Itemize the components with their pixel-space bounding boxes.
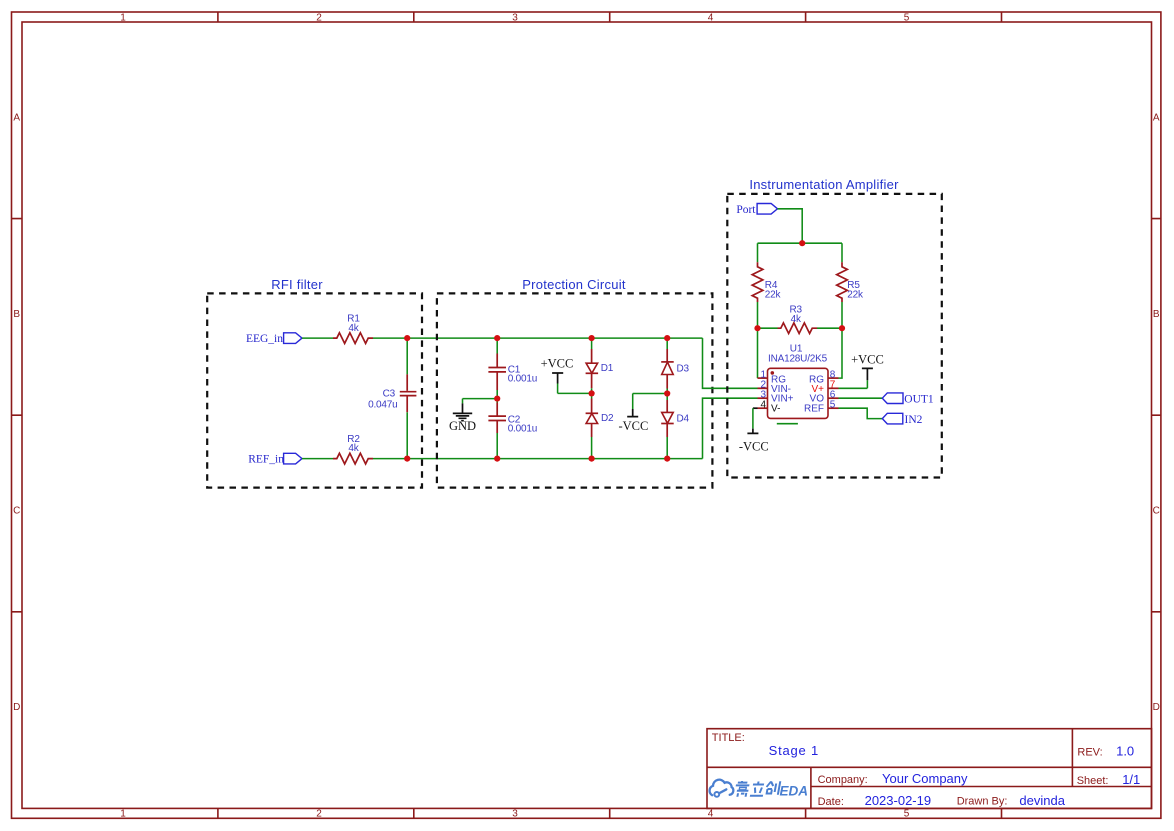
svg-text:1/1: 1/1: [1122, 772, 1140, 787]
wire: [758, 328, 843, 378]
wire to VIN+: [703, 398, 758, 458]
logo cloud icon: [710, 780, 734, 797]
svg-text:B: B: [1153, 309, 1160, 320]
wire: [591, 388, 593, 398]
wire: [406, 412, 408, 458]
wire: [496, 399, 498, 403]
node C1 top junction: [494, 335, 500, 341]
wire: [839, 397, 883, 399]
svg-text:5: 5: [904, 809, 910, 820]
svg-text:0.001u: 0.001u: [508, 374, 537, 385]
port IN2: [882, 413, 903, 424]
wire: [496, 338, 498, 353]
svg-text:Company:: Company:: [818, 774, 868, 786]
svg-text:1.0: 1.0: [1116, 743, 1134, 758]
right ruler ticks: [1152, 219, 1161, 612]
svg-text:C3: C3: [383, 389, 396, 400]
node EEG junction: [404, 335, 410, 341]
pin 7: [828, 387, 839, 389]
resistor R3: [778, 323, 818, 334]
svg-text:devinda: devinda: [1019, 793, 1065, 808]
svg-text:4: 4: [760, 400, 766, 411]
capacitor C1: [488, 354, 506, 391]
svg-text:Port: Port: [736, 204, 756, 216]
svg-text:2023-02-19: 2023-02-19: [865, 793, 932, 808]
svg-text:D2: D2: [601, 413, 614, 424]
node C2 bottom junction: [494, 456, 500, 462]
resistor R5: [837, 262, 848, 302]
svg-text:A: A: [13, 113, 20, 124]
svg-text:D: D: [13, 702, 20, 713]
svg-text:+VCC: +VCC: [541, 357, 574, 371]
node D1 top junction: [589, 335, 595, 341]
svg-text:C: C: [1153, 506, 1160, 517]
svg-text:Date:: Date:: [818, 796, 844, 808]
pin 8: [828, 377, 839, 379]
ground GND: [453, 403, 472, 420]
wire: [666, 338, 668, 349]
wire: [666, 389, 668, 401]
svg-text:0.001u: 0.001u: [508, 423, 537, 434]
pin 3: [758, 397, 768, 399]
wire: [558, 384, 592, 394]
wire: [496, 433, 498, 459]
svg-text:2: 2: [316, 809, 322, 820]
svg-text:EEG_in: EEG_in: [246, 333, 283, 345]
wire: [839, 408, 883, 418]
svg-text:-VCC: -VCC: [618, 419, 648, 433]
svg-text:Instrumentation Amplifier: Instrumentation Amplifier: [749, 177, 899, 192]
node RG top junction: [799, 240, 805, 246]
resistor R4: [752, 262, 763, 302]
node REF junction: [404, 456, 410, 462]
top column numbers: [120, 13, 910, 24]
AMPLIFIER: [727, 177, 942, 478]
node D3-D4 junction: [664, 390, 670, 396]
wire: [463, 399, 498, 404]
diode D3: [666, 349, 668, 389]
wire: [373, 337, 703, 339]
RFI filter box: [207, 293, 422, 487]
svg-text:1: 1: [120, 809, 126, 820]
Instrumentation Amplifier box: [727, 194, 942, 478]
pin 6: [828, 397, 839, 399]
diode D1: [591, 349, 593, 388]
wire: [591, 338, 593, 349]
wire: [496, 390, 498, 399]
wire: [758, 302, 843, 328]
svg-text:D: D: [1153, 702, 1160, 713]
Protection Circuit box: [437, 293, 713, 487]
svg-text:0.047u: 0.047u: [368, 400, 397, 411]
svg-text:+VCC: +VCC: [851, 352, 884, 366]
svg-text:V-: V-: [771, 403, 780, 414]
PROTECTION: [437, 277, 758, 488]
svg-text:IN2: IN2: [905, 414, 923, 426]
TITLEBLOCK: [707, 729, 1152, 809]
resistor R1: [333, 333, 373, 344]
junction dots layer: [404, 240, 845, 462]
svg-text:4k: 4k: [791, 314, 802, 325]
svg-text:B: B: [13, 309, 20, 320]
pin 4: [758, 407, 768, 409]
svg-text:A: A: [1153, 113, 1160, 124]
wire stub under U1: [777, 423, 798, 425]
svg-text:Sheet:: Sheet:: [1077, 775, 1109, 787]
svg-text:3: 3: [512, 809, 518, 820]
logo text: [734, 781, 781, 797]
svg-text:4k: 4k: [348, 323, 359, 334]
svg-text:4k: 4k: [348, 443, 359, 454]
svg-text:1: 1: [120, 13, 126, 24]
diode D4: [666, 400, 668, 437]
port EEG_in: [284, 333, 302, 344]
svg-text:REF_in: REF_in: [248, 454, 284, 466]
wire: [591, 437, 593, 459]
svg-text:Stage 1: Stage 1: [769, 743, 819, 758]
wire to VIN-: [703, 338, 758, 388]
svg-text:4: 4: [708, 13, 714, 24]
op-amp U1: [768, 368, 829, 418]
diode D2: [591, 399, 593, 438]
port REF_in: [284, 453, 302, 464]
node D2 bottom junction: [589, 456, 595, 462]
svg-text:22k: 22k: [765, 290, 782, 301]
pin 5: [828, 407, 839, 409]
svg-text:TITLE:: TITLE:: [712, 732, 745, 744]
svg-text:3: 3: [512, 13, 518, 24]
svg-text:Protection Circuit: Protection Circuit: [522, 277, 626, 292]
node D3 top junction: [664, 335, 670, 341]
node C1-C2 junction: [494, 396, 500, 402]
pin 2: [758, 387, 768, 389]
resistor R2: [333, 453, 373, 464]
svg-text:GND: GND: [449, 419, 476, 433]
svg-text:Drawn By:: Drawn By:: [957, 796, 1008, 808]
wire: [758, 243, 843, 262]
port Port: [757, 204, 777, 215]
svg-text:RFI filter: RFI filter: [271, 277, 323, 292]
wire: [778, 209, 803, 243]
svg-text:EDA: EDA: [780, 783, 809, 798]
svg-text:D4: D4: [677, 414, 690, 425]
capacitor C2: [488, 403, 506, 434]
bottom ruler ticks: [218, 808, 1002, 818]
net -VCC flag at V-: [753, 407, 758, 409]
svg-text:OUT1: OUT1: [904, 393, 934, 405]
svg-text:INA128U/2K5: INA128U/2K5: [768, 354, 828, 365]
node RG right junction: [839, 325, 845, 331]
wire: [666, 437, 668, 459]
wire: [302, 337, 333, 339]
svg-text:4: 4: [708, 809, 714, 820]
node D4 bottom junction: [664, 456, 670, 462]
left row letters: [13, 113, 20, 714]
left ruler ticks: [12, 219, 23, 612]
svg-text:REF: REF: [804, 403, 824, 414]
svg-text:22k: 22k: [847, 290, 864, 301]
pin 1: [758, 377, 768, 379]
svg-text:2: 2: [316, 13, 322, 24]
net -VCC flag: [633, 394, 668, 410]
top ruler ticks: [218, 12, 1002, 22]
title block outline: [707, 729, 1152, 809]
svg-text:5: 5: [830, 400, 836, 411]
svg-text:C: C: [13, 506, 20, 517]
svg-text:Your Company: Your Company: [882, 771, 968, 786]
wire: [302, 458, 333, 460]
svg-text:-VCC: -VCC: [739, 439, 769, 453]
capacitor C3: [400, 374, 417, 412]
node RG left junction: [754, 325, 760, 331]
node D1-D2 junction: [589, 390, 595, 396]
net +VCC flag at V+: [839, 380, 868, 388]
port OUT1: [882, 393, 903, 404]
svg-text:5: 5: [904, 13, 910, 24]
wire: [406, 338, 408, 374]
wire: [373, 458, 703, 460]
bottom column numbers: [120, 809, 910, 820]
svg-text:D3: D3: [677, 364, 690, 375]
wire: [758, 327, 843, 329]
right row letters: [1153, 113, 1160, 714]
svg-text:D1: D1: [601, 363, 614, 374]
RFI: [207, 277, 702, 488]
svg-text:REV:: REV:: [1077, 746, 1102, 758]
